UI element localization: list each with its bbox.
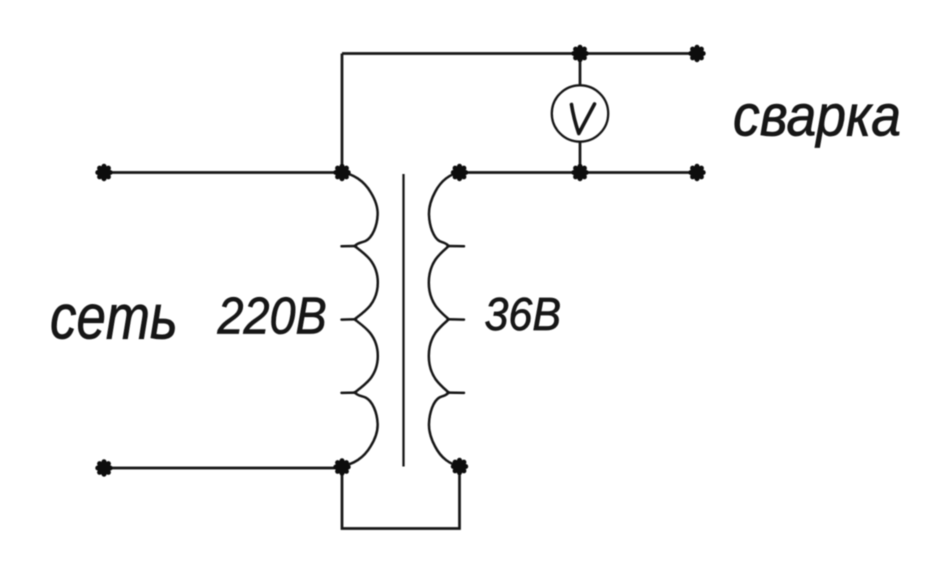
voltmeter V glyph [572, 104, 595, 134]
node top rail voltmeter tap [571, 45, 588, 62]
wire lower-left terminal lead [104, 467, 342, 470]
svg-text:220В: 220В [217, 287, 327, 345]
transformer core [402, 174, 404, 467]
transformer primary winding 220V [342, 173, 378, 466]
voltmeter PV circle [552, 85, 608, 141]
svg-text:сеmь: сеmь [50, 282, 178, 352]
wire bottom link between winding bottoms [342, 466, 460, 529]
svg-text:36В: 36В [485, 290, 562, 341]
node primary bottom junction [333, 458, 350, 475]
node upper-left terminal [95, 164, 112, 181]
svg-text:сварка: сварка [733, 82, 901, 147]
node lower-right terminal [688, 164, 705, 181]
wire voltmeter top lead [579, 54, 582, 87]
wire voltmeter bottom lead [579, 142, 582, 173]
node upper-right terminal [688, 45, 705, 62]
transformer secondary winding 36V [429, 173, 464, 466]
node secondary bottom junction [451, 458, 468, 475]
wire secondary top lead [460, 171, 698, 174]
node primary top junction [333, 164, 350, 181]
wire left drop from top rail to primary top [341, 54, 344, 173]
node lower-left terminal [95, 459, 112, 476]
wire top rail [342, 52, 697, 55]
node second rail voltmeter tap [571, 164, 588, 181]
node secondary top junction [451, 164, 468, 181]
wire upper-left terminal lead [104, 171, 342, 174]
